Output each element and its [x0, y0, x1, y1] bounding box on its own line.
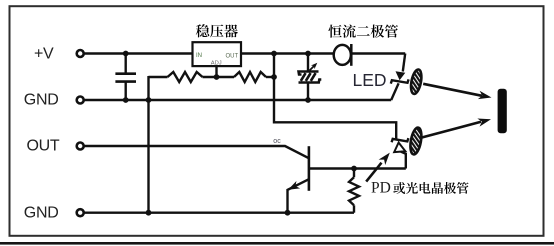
wire ADJ-divider down to bottom GND [147, 76, 149, 213]
wire CRD to LED corner [351, 52, 405, 54]
wire between R1 and ADJ node [203, 76, 235, 78]
node left-vertical/bottom GND [146, 210, 152, 216]
node capacitor bottom [123, 97, 129, 103]
node OUT-branch top [271, 51, 277, 57]
lens of photodiode [409, 127, 424, 156]
wire GND rail (bottom) [84, 211, 354, 213]
light arrow LED to target [423, 84, 482, 96]
light arrow into photodiode [366, 163, 381, 182]
wire GND rail (upper) [84, 99, 391, 101]
terminal GND (bottom) [77, 209, 84, 216]
svg-text:OUT: OUT [27, 137, 60, 154]
terminal GND (top) [77, 97, 84, 104]
svg-text:GND: GND [24, 205, 59, 222]
svg-text:+V: +V [34, 46, 54, 63]
svg-text:ADJ: ADJ [211, 60, 222, 66]
wire R2 right lead [266, 76, 274, 78]
capacitor C1 [124, 54, 126, 74]
zener diode D1 [299, 54, 322, 101]
wire base lead [309, 167, 406, 169]
bottom rule [0, 242, 554, 245]
light arrow target to PD lens [422, 122, 481, 138]
node zener bottom [305, 97, 311, 103]
wire resistor row left lead [149, 76, 168, 78]
svg-text:LED: LED [353, 70, 387, 90]
resistor R2 [234, 72, 266, 82]
svg-text:GND: GND [24, 91, 59, 108]
node zener top [305, 51, 311, 57]
terminal OUT [77, 143, 84, 150]
regulator U1 box [193, 42, 242, 66]
svg-text:oc: oc [273, 138, 281, 145]
constant-current diode (CRD) circle [334, 45, 351, 65]
label 稳压器 [196, 24, 209, 37]
node R2/branch junction [271, 74, 277, 80]
transistor Q1 [286, 146, 309, 213]
node ADJ junction [214, 74, 220, 80]
lens of LED [409, 69, 423, 95]
label 恒流二极管 [328, 25, 341, 38]
LED D2 [391, 54, 409, 101]
wire +V rail regulator OUT to CRD [241, 52, 334, 54]
CRD tangent bar [350, 44, 353, 66]
node capacitor top [123, 51, 129, 57]
wire ADJ lead [215, 66, 217, 77]
wire +V rail left [84, 52, 193, 54]
node base/resistor junction [351, 166, 357, 172]
node emitter/bottom GND [285, 210, 291, 216]
resistor R3 [353, 169, 355, 178]
node left-vertical/GND junction [146, 97, 152, 103]
svg-text:OUT: OUT [226, 53, 239, 59]
wire OUT-node branch to photodiode [274, 54, 396, 140]
terminal +V [77, 50, 84, 57]
reflective target bar [498, 89, 507, 133]
photodiode D3 [392, 138, 409, 168]
svg-text:IN: IN [196, 53, 202, 59]
resistor R1 [168, 72, 203, 82]
svg-text:PD: PD [371, 180, 391, 197]
wire OUT to transistor collector [84, 146, 309, 158]
